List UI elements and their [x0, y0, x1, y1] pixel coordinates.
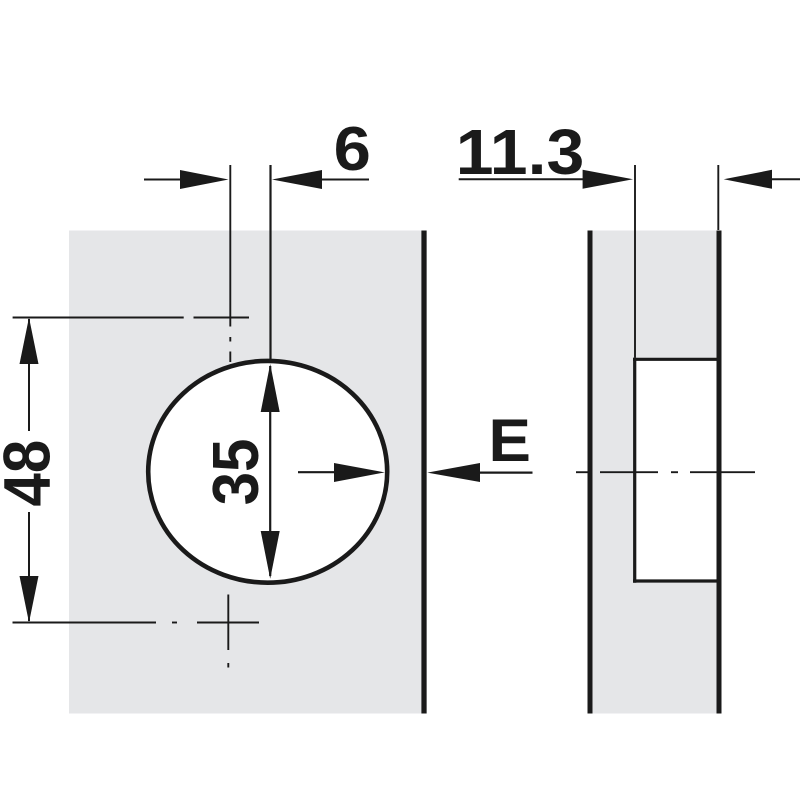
11.3 extension lines	[634, 165, 636, 358]
cup hole circle (35 dia)	[148, 361, 387, 583]
screw-hole vertical centerline (dash-dot), x=230.3	[228, 165, 230, 668]
6 right arrowhead (left-pointing)	[272, 170, 322, 189]
35 bottom arrowhead (down)	[261, 531, 280, 579]
cup notch (white)	[637, 361, 720, 580]
E outer arrow (points left to door edge)	[478, 472, 533, 474]
11.3 left arrowhead (right-pointing)	[583, 170, 633, 189]
door panel side view gray strip	[593, 231, 720, 714]
cup vertical centerline, x=270.5	[269, 165, 271, 359]
door edge thick line (front view)	[421, 231, 426, 714]
dimension 35 vertical inside circle	[269, 366, 271, 576]
svg-text:6: 6	[334, 114, 371, 183]
dimension 6 at top	[144, 179, 369, 181]
E inner arrow (points right to cup edge)	[298, 471, 336, 473]
side view left edge thick line	[588, 231, 593, 714]
top screw cross horizontal centerline + 48 extension, y=317.5	[13, 317, 249, 319]
svg-text:11.3: 11.3	[456, 116, 585, 188]
35 top arrowhead (up)	[261, 364, 280, 412]
11.3 right arrowhead (left-pointing)	[724, 170, 772, 189]
door panel front view (gray)	[69, 231, 427, 714]
6 left arrowhead (right-pointing)	[180, 170, 229, 189]
dimension 48 vertical line with gap for text	[28, 319, 30, 621]
svg-text:35: 35	[200, 439, 273, 506]
side view right edge thick line	[717, 231, 722, 714]
svg-text:E: E	[488, 408, 530, 475]
svg-text:48: 48	[0, 440, 64, 507]
bottom screw cross horizontal centerline + 48 extension, y=622.5	[13, 622, 260, 624]
dimension 11.3	[459, 178, 584, 180]
side view horizontal centerline (dash-dot), y=472.2	[576, 471, 755, 473]
notch outline	[633, 358, 722, 583]
48 bottom arrowhead (down)	[20, 576, 39, 623]
48 top arrowhead (up)	[20, 318, 39, 365]
